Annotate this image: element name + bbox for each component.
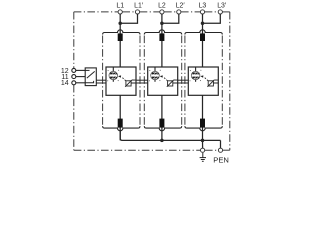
svg-text:L1: L1 [116, 2, 124, 9]
svg-text:L3′: L3′ [217, 2, 227, 9]
wire terminal 12 to block [76, 69, 85, 71]
changeover contact 12 fixed [85, 69, 89, 71]
disconnector (top) module 2 [159, 33, 164, 41]
wire L3′ down and left to junction [203, 14, 221, 23]
wire junction to module 1 [119, 23, 121, 67]
trigger arrow module 1 [118, 75, 126, 80]
module 1 boundary bottom edge with crossing hop [103, 126, 140, 131]
terminal 12 [72, 68, 76, 72]
wire L2′ down and left to junction [162, 14, 179, 23]
svg-text:PEN: PEN [213, 156, 229, 164]
mechanical link inside module 2 [173, 82, 178, 84]
wire L3 down to junction [202, 14, 204, 23]
terminal L3 [200, 10, 204, 14]
spark gap module 3 [189, 67, 201, 82]
svg-text:L2: L2 [158, 2, 166, 9]
terminal L2 [160, 10, 164, 14]
mechanical link module 1 to module 2 [136, 80, 148, 83]
enclosure frame right edge [229, 12, 231, 150]
junction node L1 [118, 21, 122, 25]
disconnector (top) module 3 [200, 33, 205, 41]
bus drop to PEN terminal [220, 140, 222, 148]
varistor module 1 [125, 80, 136, 87]
SPD box module 3 [188, 67, 218, 95]
labels 12 11 14 [61, 68, 69, 87]
mechanical link inside module 3 [213, 82, 218, 84]
SPD box module 1 [106, 67, 136, 95]
wire junction to module 2 [161, 23, 163, 67]
module 2 boundary bottom edge with crossing hop [144, 126, 181, 131]
terminal L2′ [177, 10, 181, 14]
module 3 boundary right side (dash-dot) [221, 36, 223, 126]
terminal L1′ [135, 10, 139, 14]
module 3 boundary bottom edge with crossing hop [185, 126, 222, 131]
wire terminal 14 to block [76, 82, 85, 84]
spark gap module 2 [149, 67, 161, 82]
PEN bus [120, 131, 220, 140]
bus junction node module 2 [160, 139, 164, 143]
wire module 2 box to bus [161, 95, 163, 140]
terminal labels L1 L1' L2 L2' L3 L3' [116, 2, 227, 9]
wire L2 down to junction [161, 14, 163, 23]
wire junction to module 3 [202, 23, 204, 67]
wire module 1 box to bus [119, 95, 121, 140]
wire L1′ down and left to junction [120, 14, 137, 23]
PEN terminal [218, 148, 222, 152]
module 1 boundary right side (dash-dot) [139, 36, 141, 126]
wire L1 down to junction [119, 14, 121, 23]
mechanical link contact block to module 1 [96, 80, 106, 83]
spark gap module 1 [107, 67, 119, 82]
svg-text:L2′: L2′ [176, 2, 186, 9]
enclosure frame top edge [74, 11, 230, 13]
disconnector (bottom) module 3 [200, 119, 205, 128]
module 3 boundary left side (dash-dot) [184, 36, 186, 126]
module 2 boundary left side (dash-dot) [143, 36, 145, 126]
terminal L3′ [218, 10, 222, 14]
junction node L3 [201, 21, 205, 25]
module 2 boundary top edge with crossing hop [144, 30, 181, 35]
svg-text:L1′: L1′ [134, 2, 144, 9]
junction node L2 [160, 21, 164, 25]
module 1 boundary left side (dash-dot) [102, 36, 104, 126]
disconnector (bottom) module 2 [159, 119, 164, 128]
terminal 11 [72, 75, 76, 79]
changeover contact moving blade [87, 71, 95, 78]
varistor module 2 [167, 80, 178, 87]
svg-text:L3: L3 [199, 2, 207, 9]
terminal 14 [72, 81, 76, 85]
bus drop to earth terminal [202, 140, 204, 148]
module 1 boundary top edge with crossing hop [103, 30, 140, 35]
svg-text:14: 14 [61, 80, 69, 87]
enclosure frame left edge [73, 12, 75, 150]
wire terminal 11 to block [76, 76, 85, 78]
terminal L1 [118, 10, 122, 14]
mechanical link inside module 1 [131, 82, 136, 84]
contact block box [85, 68, 96, 86]
disconnector (bottom) module 1 [118, 119, 123, 128]
earth symbol [200, 153, 206, 162]
wire module 3 box to bus [202, 95, 204, 140]
earth terminal [201, 148, 205, 152]
module 2 boundary right side (dash-dot) [181, 36, 183, 126]
bus junction node module 3 [201, 139, 205, 143]
module 3 boundary top edge with crossing hop [185, 30, 222, 35]
changeover contact 14 fixed [85, 81, 93, 83]
SPD box module 2 [148, 67, 178, 95]
mechanical link module 2 to module 3 [178, 80, 189, 83]
enclosure frame bottom edge [74, 149, 230, 151]
trigger arrow module 3 [200, 75, 208, 80]
trigger arrow module 2 [160, 75, 168, 80]
disconnector (top) module 1 [118, 33, 123, 41]
varistor module 3 [207, 80, 218, 87]
